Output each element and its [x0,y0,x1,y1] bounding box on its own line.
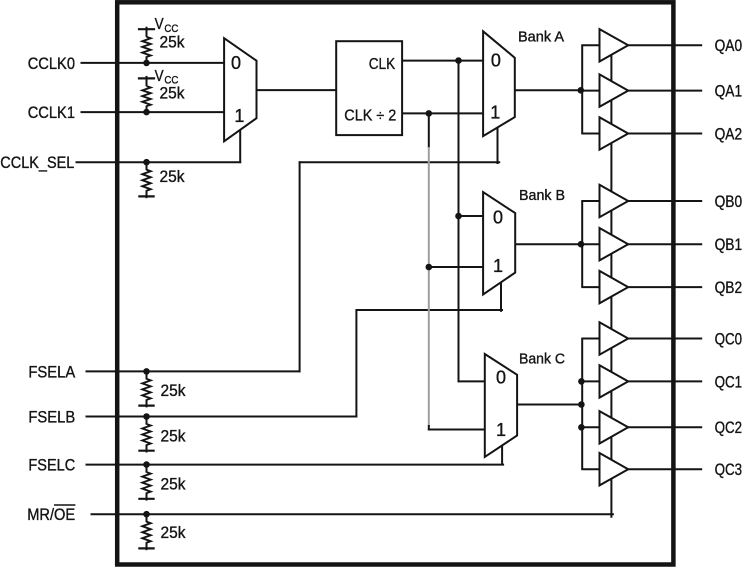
wire CCLK_SEL to U1 select [76,161,242,163]
mux U3 Bank A [483,31,515,136]
wire Bank B buffer bus vertical [581,201,583,287]
U2 label CLK [369,56,396,73]
resistor R1 pull-up with Vcc on CCLK0 [138,27,155,67]
junction Bank C bus at output [578,401,585,408]
mux U4 Bank B [483,192,515,294]
wire Bank B mux input 1 [429,266,484,268]
wire to QC0 buffer [581,338,599,340]
wire to QB2 buffer [581,286,599,288]
wire U4 output to Bank B buffer bus [515,243,583,245]
wire FSELB to Bank B select [356,309,504,311]
wire CLK vertical dropper [458,61,460,383]
svg-text:FSELA: FSELA [28,363,75,381]
wire FSELA riser [299,161,301,372]
wire QA0 output [628,44,702,46]
U4 pin label 0 [493,208,503,228]
svg-text:QA0: QA0 [715,37,743,55]
resistor R4 pull-down on FSELA [138,368,154,407]
resistor R3 value 25k [160,168,186,186]
wire CLK to Bank A mux input 0 [402,60,484,62]
mux U5 Bank C [485,354,517,457]
wire Bank A buffer bus vertical [581,45,583,133]
wire to QA0 buffer [581,44,599,46]
U5 pin label 1 [496,420,506,440]
resistor R6 pull-down on FSELC [138,461,154,500]
junction Bank A bus [578,87,585,94]
output buffer QB0 [600,185,629,217]
wire CCLK1 to mux U1 input 1 [81,111,226,113]
svg-text:CCLK_SEL: CCLK_SEL [0,154,74,172]
wire to QB1 buffer [581,243,599,245]
svg-text:0: 0 [493,208,503,228]
output buffer QC0 [600,322,629,354]
wire Bank B select vertical [500,282,502,312]
svg-text:QB0: QB0 [715,193,743,211]
wire QC1 output [628,380,702,382]
svg-text:QC2: QC2 [715,419,743,437]
wire to QC3 buffer [581,468,599,470]
svg-text:QC0: QC0 [715,330,743,348]
wire FSELB horizontal [86,416,358,418]
wire Bank B mux input 0 [459,215,485,217]
svg-text:25k: 25k [160,85,186,103]
svg-text:Bank B: Bank B [519,188,565,204]
resistor R1 value 25k [160,34,186,52]
output label QB0 [715,193,743,211]
input label CCLK_SEL [0,154,74,172]
junction on CLK/2 line [426,110,433,117]
wire U3 output to Bank A buffer bus [515,89,583,91]
wire to QC2 buffer [581,426,599,428]
svg-text:25k: 25k [161,524,187,542]
output label QA0 [715,37,743,55]
svg-text:1: 1 [496,420,506,440]
input label CCLK0 [28,55,75,73]
wire CLK/2 dropper bottom [428,425,430,430]
wire Bank C buffer bus vertical [581,339,583,470]
output buffer QB1 [600,228,629,260]
output label QC1 [715,373,743,391]
wire Bank C select vertical [501,444,503,466]
wire QB2 output [628,286,702,288]
resistor R3 pull-down on CCLK_SEL [138,159,154,198]
output label QC3 [715,461,743,479]
svg-text:CLK ÷ 2: CLK ÷ 2 [344,107,396,124]
resistor R7 pull-down on MR/OE [138,511,154,550]
svg-text:Bank A: Bank A [518,29,564,45]
wire U1 select vertical [239,129,241,164]
junction Bank C bus at QC2 [578,424,585,431]
wire QB0 output [628,200,702,202]
wire Bank A select vertical [497,127,499,165]
output label QA1 [715,83,743,101]
U4 pin label 1 [493,256,503,276]
svg-text:CLK: CLK [369,56,396,73]
svg-text:QC1: QC1 [715,373,743,391]
svg-text:QA2: QA2 [715,125,743,143]
resistor R4 value 25k [161,382,187,400]
wire QC0 output [628,338,702,340]
wire CLK/2 dropper elbow to Bank C input 1 [428,429,487,431]
wire CCLK0 to mux U1 input 0 [81,62,226,64]
label Bank A [518,29,564,45]
resistor R5 pull-down on FSELB [138,413,154,452]
svg-text:1: 1 [490,102,500,122]
svg-text:25k: 25k [160,168,186,186]
wire U5 output to Bank C buffer bus [517,404,583,406]
U2 label CLK / 2 [344,107,396,124]
wire U1 output to divider block [257,89,338,91]
U3 pin label 1 [490,102,500,122]
svg-text:QB1: QB1 [715,236,743,254]
label Bank C [519,352,565,368]
svg-text:0: 0 [496,368,506,388]
label Vcc (R1) [155,16,179,35]
svg-text:1: 1 [493,256,503,276]
wire FSELA to Bank A select [299,161,501,163]
svg-text:V: V [155,16,165,33]
resistor R6 value 25k [161,476,187,494]
wire to QA2 buffer [581,133,599,135]
svg-text:25k: 25k [161,476,187,494]
wire QA2 output [628,133,702,135]
U5 pin label 0 [496,368,506,388]
input label CCLK1 [28,104,75,122]
junction Bank B bus [578,241,585,248]
wire to QA1 buffer [581,90,599,92]
svg-text:Bank C: Bank C [519,352,565,368]
svg-text:MR/OE: MR/OE [27,506,75,524]
wire CLK/2 to Bank A mux input 1 [402,112,484,114]
svg-text:25k: 25k [160,34,186,52]
output buffer QA2 [600,117,629,149]
output label QC0 [715,330,743,348]
label Bank B [519,188,565,204]
output buffer QA0 [600,29,629,61]
svg-text:25k: 25k [161,428,187,446]
junction Bank C bus at QC1 [578,378,585,385]
wire QB1 output [628,243,702,245]
wire QC2 output [628,426,702,428]
svg-text:0: 0 [231,53,241,73]
junction CLK to Bank B input 0 [455,213,462,220]
wire CLK/2 vertical dropper (dark top) [428,113,430,148]
wire MR/OE horizontal [91,513,614,515]
output buffer QA1 [600,74,629,106]
svg-text:FSELB: FSELB [28,408,75,426]
svg-text:QB2: QB2 [715,279,743,297]
wire to QB0 buffer [581,200,599,202]
mux U1 (CCLK select) [224,38,256,141]
output buffer QC1 [600,365,629,397]
input label FSELB [28,408,75,426]
svg-text:CCLK1: CCLK1 [28,104,75,122]
output label QA2 [715,125,743,143]
output label QB2 [715,279,743,297]
resistor R5 value 25k [161,428,187,446]
wire FSELA horizontal [86,370,301,372]
input label MR/OE with overline [27,505,75,524]
svg-text:V: V [155,68,165,85]
divider block U2 [336,41,402,135]
resistor R2 pull-up with Vcc on CCLK1 [138,76,155,115]
wire CLK/2 vertical dropper (grey) [428,147,430,426]
svg-text:25k: 25k [161,382,187,400]
U1 pin label 0 [231,53,241,73]
U3 pin label 0 [491,50,501,70]
svg-text:FSELC: FSELC [28,457,75,475]
label Vcc (R2) [155,68,179,87]
wire FSELB riser [355,309,357,417]
output buffer QC2 [600,411,629,443]
svg-text:1: 1 [234,106,244,126]
junction on CLK line [455,57,462,64]
wire QC3 output [628,468,702,470]
resistor R2 value 25k [160,85,186,103]
svg-text:0: 0 [491,50,501,70]
svg-text:QC3: QC3 [715,461,743,479]
wire output-enable vertical from MR/OE to buffers [610,45,612,517]
resistor R7 value 25k [161,524,187,542]
output buffer QC3 [600,453,629,485]
output label QB1 [715,236,743,254]
wire CLK dropper elbow to Bank C input 0 [458,380,485,382]
svg-text:CCLK0: CCLK0 [28,55,75,73]
input label FSELC [28,457,75,475]
junction CLK/2 to Bank B input 1 [426,264,433,271]
input label FSELA [28,363,75,381]
output buffer QB2 [600,271,629,303]
wire QA1 output [628,90,702,92]
wire to QC1 buffer [581,380,599,382]
IC boundary box [117,2,673,564]
output label QC2 [715,419,743,437]
svg-text:QA1: QA1 [715,83,743,101]
U1 pin label 1 [234,106,244,126]
wire FSELC horizontal [86,464,505,466]
